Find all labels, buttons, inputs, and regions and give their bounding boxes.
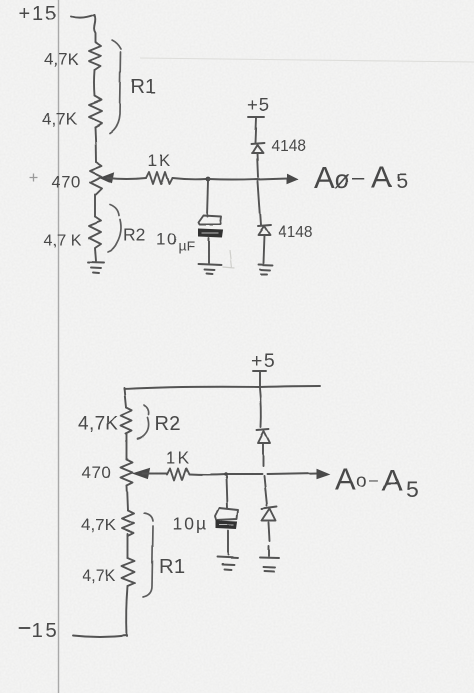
bracket for R2 (bottom) (138, 405, 149, 439)
ground under capacitor (198, 264, 221, 274)
wire node to diode D2 (258, 181, 261, 225)
potentiometer 470 body (bottom) (121, 459, 133, 485)
svg-text:15: 15 (31, 619, 59, 642)
svg-text:o: o (356, 470, 367, 491)
svg-text:µF: µF (178, 238, 195, 254)
wire 470 to 4.7K (bottom chain) (127, 485, 128, 510)
svg-text:A: A (335, 461, 356, 496)
top rail wire (bottom circuit) (124, 386, 320, 389)
capacitor C1 bottom plate (198, 229, 222, 237)
svg-text:10µ: 10µ (172, 514, 208, 534)
label R2 (bottom) (155, 413, 181, 435)
wire bus node down to diode D4 (264, 476, 267, 506)
resistor 1K body (bottom) (167, 468, 189, 480)
node +5 label (bottom) (251, 350, 276, 372)
resistor R1 upper 4.7K body (bottom) (122, 510, 134, 536)
label 4148 (top diode) (271, 138, 305, 155)
svg-text:10: 10 (156, 230, 178, 249)
svg-text:4,7K: 4,7K (82, 567, 116, 585)
ground under D4 (260, 558, 279, 572)
potentiometer 470 body (90, 162, 102, 195)
svg-text:470: 470 (82, 463, 112, 482)
svg-text:4,7K: 4,7K (42, 109, 78, 128)
wire wiper to 1K (108, 178, 146, 179)
value label 470 (bottom) (82, 463, 112, 482)
resistor R1 lower 4.7K body (89, 96, 102, 127)
resistor R1 lower 4.7K body (bottom) (122, 558, 135, 586)
svg-text:470: 470 (51, 173, 81, 192)
svg-text:R1: R1 (131, 76, 157, 98)
svg-text:–: – (369, 471, 378, 488)
wire 470 to R2 (top circuit) (94, 195, 96, 217)
wire 1K to junction (172, 178, 206, 179)
svg-text:4148: 4148 (278, 224, 312, 241)
wire rail down to diode D3 (260, 388, 261, 427)
wire 1K to cap junction and across to arrow (189, 473, 318, 475)
svg-text:–: – (352, 164, 365, 189)
svg-text:4,7K: 4,7K (44, 50, 80, 69)
diode D3 (257, 429, 270, 443)
wire capacitor to ground (207, 238, 209, 263)
supply T bar (top circuit) (248, 116, 264, 118)
svg-text:5: 5 (396, 170, 408, 193)
ground under D2 (258, 265, 272, 275)
wire R2 to 470 (bottom) (126, 434, 128, 459)
svg-text:ø: ø (334, 164, 350, 194)
value label 4,7K (bottom chain lower) (82, 567, 116, 585)
bracket for R1 (110, 40, 121, 133)
wire D2 to ground (263, 235, 264, 263)
ghost ground marks (222, 250, 234, 268)
svg-text:4,7K: 4,7K (81, 515, 117, 534)
label A0-A5 (top) (314, 159, 408, 195)
capacitor C1 top plate (198, 215, 221, 224)
label 4148 (lower diode) (278, 224, 312, 241)
wire wiper to 1K (bottom) (143, 472, 167, 474)
node +5 label (top) (247, 94, 270, 115)
wire junction down to capacitor (207, 181, 208, 216)
paper crease (140, 58, 474, 62)
arrowhead to bus A0-A5 (bottom) (317, 469, 329, 478)
svg-text:1K: 1K (148, 152, 172, 170)
resistor R1 upper 4.7K body (89, 42, 101, 70)
wire +15 to R1 top (71, 15, 95, 42)
label R1 (bottom) (159, 556, 185, 578)
junction dot (bottom) (223, 472, 227, 476)
svg-text:+15: +15 (19, 3, 58, 25)
label A0-A5 (bottom) (335, 461, 419, 502)
wire R1 to 470 (95, 127, 96, 162)
value label 10u (bottom) (172, 514, 208, 534)
label R2 (top) (123, 225, 145, 245)
node +15 label (19, 3, 58, 25)
svg-text:A: A (382, 462, 403, 497)
value label 4,7 K (top R2) (44, 232, 82, 249)
junction node dot (206, 177, 211, 182)
svg-text:1K: 1K (166, 449, 191, 467)
svg-text:R2: R2 (155, 413, 181, 435)
resistor R2 4.7K body (top circuit) (89, 217, 101, 248)
bracket for R1 (bottom) (143, 513, 153, 597)
wire D4 to ground (broken stroke) (269, 523, 270, 556)
value label 10uF (156, 230, 195, 254)
svg-text:A: A (371, 159, 392, 194)
resistor 1K body (top) (146, 172, 172, 184)
resistor R2 4.7K body (bottom) (121, 408, 132, 434)
svg-text:5: 5 (406, 476, 419, 502)
capacitor C2 bottom plate (216, 521, 237, 529)
margin ruled line (58, 0, 60, 693)
node -15 label (19, 619, 59, 642)
value label 4,7K (second) (42, 109, 78, 128)
wire -15 horizontal (73, 635, 127, 637)
ground under capacitor (bottom) (217, 557, 238, 570)
svg-text:R2: R2 (123, 225, 145, 245)
wire junction down to capacitor (bottom) (226, 476, 227, 508)
svg-text:4,7K: 4,7K (78, 414, 119, 435)
label R1 (131, 76, 157, 98)
diode D4 (262, 507, 277, 521)
wire junction to diode node and arrow line (208, 178, 288, 180)
svg-text:+5: +5 (247, 94, 270, 115)
svg-text:A: A (314, 160, 335, 195)
svg-text:R1: R1 (159, 556, 185, 578)
faint plus mark (29, 174, 37, 182)
wire rail corner down to R2 (124, 388, 126, 408)
wire D3 to bus node (262, 444, 264, 466)
diode D2 (258, 225, 271, 235)
value label 4,7K (top) (44, 50, 80, 69)
wire +5 to diode D1 (255, 118, 256, 143)
value label 470 (51, 173, 81, 192)
capacitor C2 top plate (215, 508, 238, 520)
label 1K (top) (148, 152, 172, 170)
wiper arrow into 470 (bottom) (134, 468, 150, 478)
bracket for R2 (top) (108, 205, 121, 252)
wire R2 to ground (top) (95, 248, 96, 261)
arrowhead to bus A0-A5 (top) (287, 174, 297, 183)
wire capacitor to ground (bottom) (227, 531, 229, 555)
wire between bottom chain resistors (127, 534, 129, 558)
wire chain down to -15 rail (127, 586, 128, 636)
wiper arrow into 470 (101, 173, 114, 183)
value label 4,7K (bottom chain upper) (81, 515, 117, 534)
ground under R2 (top) (88, 262, 104, 273)
supply T bar (bottom circuit) (253, 371, 266, 387)
svg-text:+5: +5 (251, 350, 276, 372)
wire between R1 halves (94, 70, 97, 96)
diode D1 (251, 143, 264, 153)
wire D1 to node (257, 153, 258, 177)
label 1K (bottom) (166, 449, 191, 467)
value label 4,7K (bottom R2) (78, 414, 119, 435)
svg-text:4,7 K: 4,7 K (44, 232, 82, 249)
svg-text:4148: 4148 (271, 138, 305, 155)
